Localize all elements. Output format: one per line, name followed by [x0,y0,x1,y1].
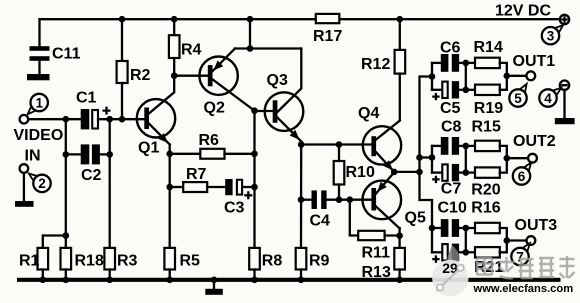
node: C1/C2 right junction [106,116,113,123]
transistor Q3 [265,49,304,142]
svg-text:R8: R8 [262,252,283,269]
node: ground rail at R5 [166,277,173,284]
node: R1/R18 junction [63,232,70,239]
svg-text:C10: C10 [438,199,467,216]
resistor R15 [466,118,507,158]
node 3 terminal (+12V) [560,15,569,24]
wire: Q3 emitter to Q4 base [301,143,371,145]
node: Q2 collector / Q3 base [251,107,258,114]
node: group 1 cap bot right [463,87,470,94]
svg-text:2: 2 [38,176,46,191]
svg-text:OUT3: OUT3 [515,217,558,234]
svg-text:C6: C6 [440,39,461,56]
callout 7 [511,243,530,265]
callout 5 [509,84,526,107]
svg-text:R17: R17 [313,28,342,45]
node: ground rail at R18 [63,277,70,284]
capacitor C6 [432,39,466,72]
svg-text:Q5: Q5 [405,209,426,226]
wire: to OUT3 terminal [507,239,527,241]
capacitor C9 (electrolytic) [0,0,466,263]
decorative watermark (not labelled further) [432,245,468,296]
resistor R13 [362,248,405,281]
resistor R2 [117,19,151,119]
wire: left branch down (C2/R18 column) [65,119,67,248]
svg-text:R11: R11 [362,244,391,261]
svg-text:IN: IN [25,148,41,165]
wire: to OUT1 terminal [507,75,526,77]
wire: Q5 collector down [398,228,400,248]
svg-text:Q4: Q4 [358,105,379,122]
label VIDEO IN [14,127,64,165]
svg-text:C5: C5 [440,100,461,117]
resistor R16 [466,200,507,241]
wire: group 3 right connector [465,228,467,252]
resistor R20 [466,158,507,199]
node: ground rail at R9 [298,277,305,284]
svg-text:6: 6 [518,169,526,184]
node OUT3 terminal [527,236,536,245]
node: rail/R4 [171,16,178,23]
wire: Q3 emitter column [300,142,303,249]
svg-text:C2: C2 [81,167,102,184]
wire: group 3 left connector [431,228,433,252]
node: base/R2 [119,116,126,123]
node: group 1 cap top right [463,60,470,67]
wire: R1 stub [43,236,66,249]
resistor R17 [313,14,342,45]
wire: group 1 right connector [465,63,467,90]
resistor R11 [350,200,400,262]
wire: group 2 right connector [465,146,467,173]
wire: ground rail [17,278,561,282]
svg-text:Q2: Q2 [204,99,225,116]
node: rail/R12 [397,16,404,23]
node: Q1 collector / Q2 base [171,72,178,79]
node: bus/OUT2 stub [416,154,423,161]
node 4 terminal (-) [560,81,569,119]
svg-text:R9: R9 [309,252,330,269]
node OUT1 terminal [526,71,535,80]
resistor R12 [361,19,405,119]
node: rail/R2 [119,16,126,23]
svg-text:C11: C11 [52,46,81,63]
resistor R9 [296,248,330,281]
wire: group 1 left connector [431,63,433,90]
svg-text:1: 1 [35,95,43,110]
ground (main symbol) [205,280,223,295]
resistor R21 [466,241,507,277]
node: R7 left [166,184,173,191]
capacitor C3 [207,179,254,216]
wire: emitter node to bus [394,171,419,173]
svg-text:VIDEO: VIDEO [14,127,64,144]
node: C3 right [251,184,258,191]
node: C4 left [298,196,305,203]
wire: Q1 collector to Q2 base [174,75,208,77]
node: C1/C2 left junction [63,116,70,123]
svg-text:R5: R5 [180,252,201,269]
svg-text:Q3: Q3 [267,72,288,89]
svg-text:R16: R16 [471,200,500,217]
svg-text:OUT1: OUT1 [513,53,556,70]
wire: Q1 emitter column [169,145,171,249]
transistor Q2 (PNP) [199,49,254,117]
node: group 1 feed [429,73,436,80]
resistor R1 [19,248,48,281]
node: ground rail at R8 [251,277,258,284]
callout 4 [539,88,561,107]
resistor R18 [61,248,104,281]
node: group 3 cap top right [463,225,470,232]
node: group 3 cap bot right [463,249,470,256]
resistor R10 [334,145,375,200]
transistor Q1 [137,58,175,156]
node: group 2 feed [429,154,436,161]
capacitor C7 (electrolytic) [432,164,466,198]
ground (output common) [555,118,575,124]
node OUT2 terminal [528,154,537,163]
node: Q3 emitter [298,141,305,148]
svg-text:R2: R2 [130,67,151,84]
resistor R14 [466,39,507,76]
capacitor C8 [432,118,466,155]
wire: right branch down (C2/R3 column) [109,119,111,248]
wire: group 2 left connector [431,146,433,173]
node: ground rail at R1 [40,277,47,284]
capacitor C1 [76,90,111,130]
wire: Q2 collector column [253,111,255,248]
wire: +12V top rail [40,19,561,46]
wire: output bus vertical [420,77,433,229]
capacitor C5 (electrolytic) [432,81,466,117]
transistor Q4 [358,105,401,172]
svg-text:R4: R4 [181,42,202,59]
svg-text:R20: R20 [471,182,500,199]
node: rail drop [247,16,254,23]
resistor R3 [104,248,137,281]
node: R10 top [336,141,343,148]
wire: OUT2 stub [420,156,433,158]
callout 2 [29,174,51,193]
capacitor C11 [30,46,81,74]
capacitor C10 [432,199,467,237]
wire: input to C1 [28,118,80,120]
svg-text:R18: R18 [75,252,104,269]
node: bus/emitters [416,169,423,176]
node: C2 left [63,151,70,158]
callout 3 [542,25,563,44]
ground (input) [15,201,34,207]
svg-text:R15: R15 [472,118,501,135]
node 2 terminal (video in gnd) [20,164,29,201]
resistor R8 [249,248,282,281]
svg-text:4: 4 [544,91,552,106]
svg-text:R10: R10 [346,164,375,181]
node: ground rail at R3 [106,277,113,284]
svg-text:R7: R7 [186,166,207,183]
node: group 2 cap bot right [463,169,470,176]
svg-text:C8: C8 [441,118,462,135]
node: ground rail at gnd sym [211,277,218,284]
svg-text:Q1: Q1 [138,140,159,157]
ground (C11) [27,74,50,80]
node: Q4/Q5 emitters [391,169,398,176]
svg-text:C1: C1 [76,90,97,107]
node: group 1 output join [504,73,511,80]
svg-text:C7: C7 [441,181,462,198]
svg-text:5: 5 [514,91,522,106]
wire: Q2 emitter to rail [235,19,301,48]
wire: C1 to Q1 base [98,118,144,120]
resistor R5 [164,248,200,281]
node: ground rail at R13 [396,277,403,284]
callout 1 [28,94,48,115]
svg-text:R19: R19 [474,100,503,117]
node: C4/R10 [336,196,343,203]
node: C2 right [106,151,113,158]
svg-text:OUT2: OUT2 [513,133,556,150]
transistor Q5 (PNP) [363,172,426,228]
wire: to OUT2 terminal [507,157,528,159]
capacitor C2 [66,144,110,184]
node: group 3 output join [504,237,511,244]
node: emitter line [247,45,254,52]
node: group 3 feed [429,225,436,232]
node 1 terminal (video in hot) [20,115,29,124]
node: group 2 output join [504,155,511,162]
wire: base Q3 [255,110,273,112]
svg-text:R12: R12 [361,56,390,73]
svg-text:C3: C3 [224,199,245,216]
resistor R4 [169,19,202,58]
node: R11 branch [347,196,354,203]
callout 6 [513,163,531,185]
node: R6 right [251,151,258,158]
svg-text:12V DC: 12V DC [495,3,551,20]
svg-text:C4: C4 [310,213,331,230]
svg-text:3: 3 [547,29,555,44]
svg-text:R6: R6 [199,132,220,149]
resistor R19 [466,76,507,117]
svg-text:www.elecfans.com: www.elecfans.com [473,283,574,295]
node: R11/R13 [396,232,403,239]
resistor R7 [170,166,208,192]
capacitor C4 [301,190,371,229]
svg-text:R14: R14 [474,39,503,56]
svg-text:R3: R3 [117,252,138,269]
node: R6 left [166,151,173,158]
node: group 2 cap top right [463,143,470,150]
resistor R6 [170,132,255,159]
svg-text:R1: R1 [19,252,40,269]
